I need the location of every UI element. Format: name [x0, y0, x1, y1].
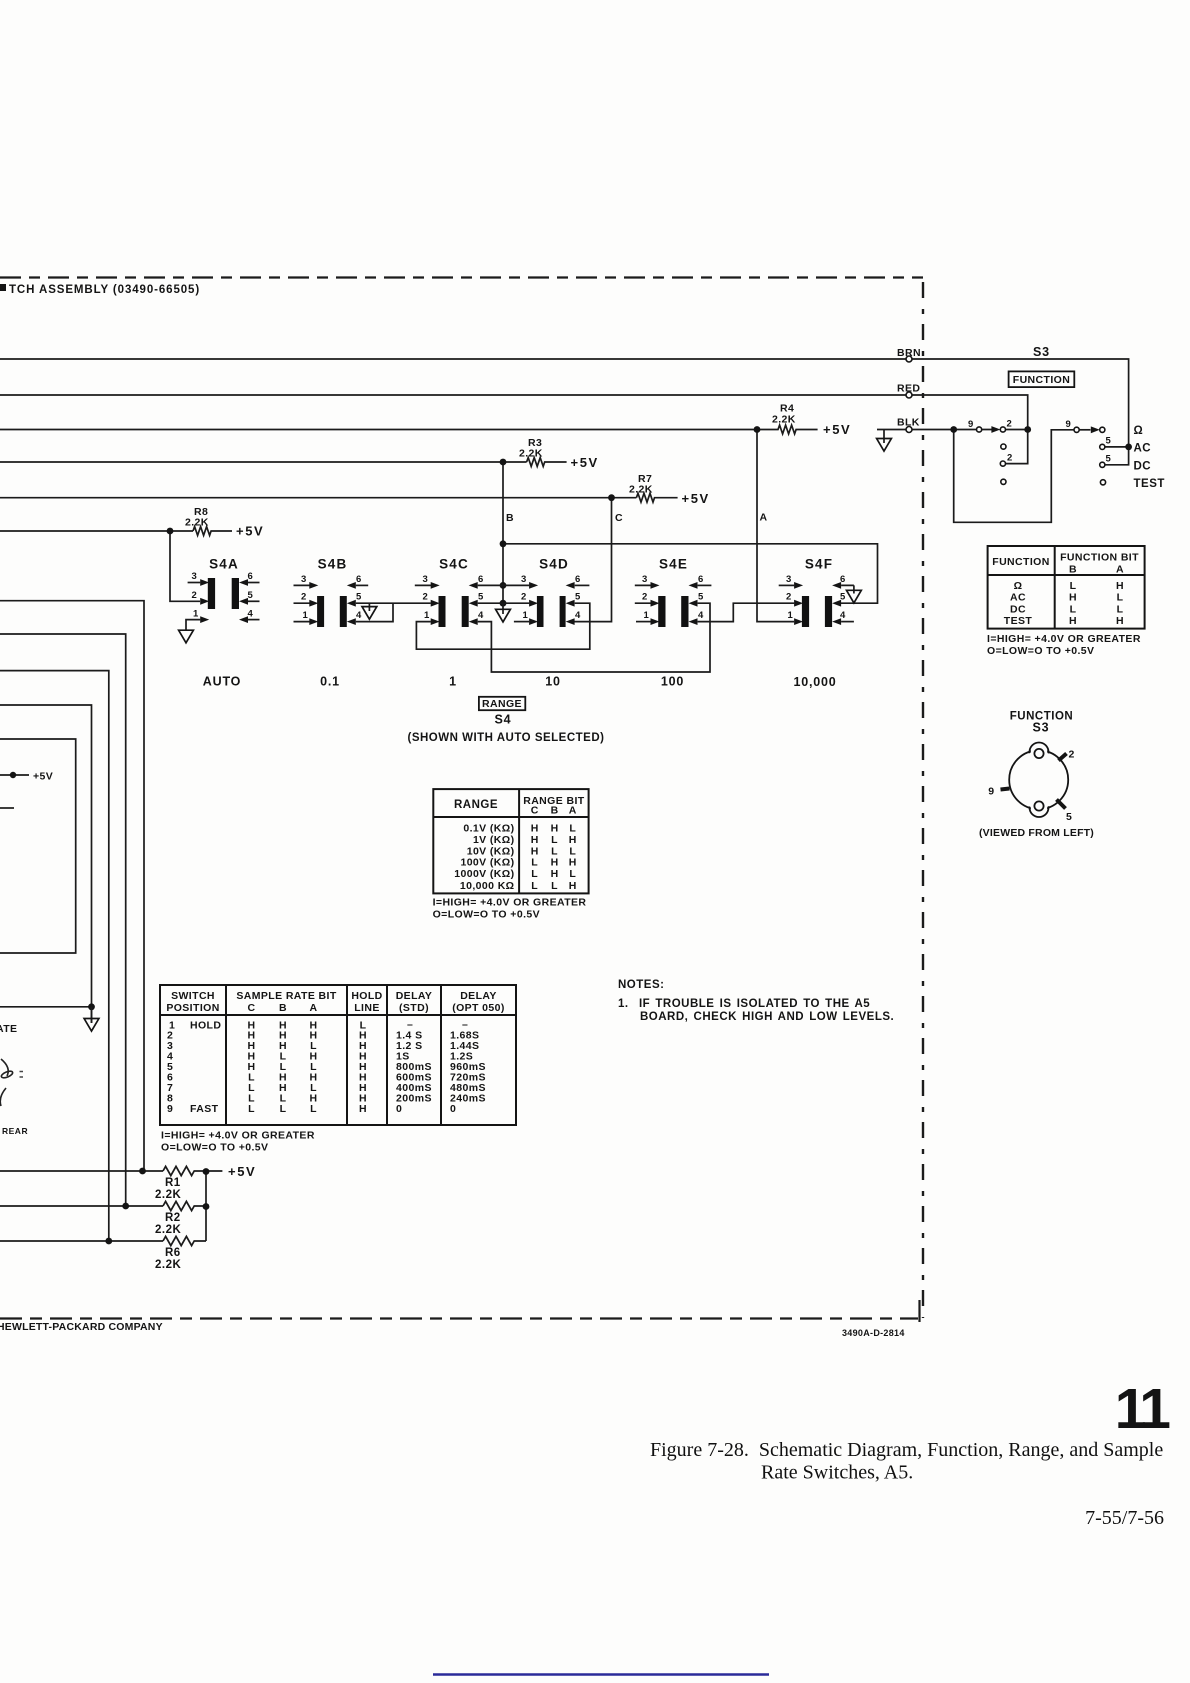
svg-text:H: H: [569, 834, 577, 846]
S4C pin 6 wire to net B: [478, 584, 503, 586]
svg-text:S4B: S4B: [318, 557, 348, 572]
RANGE table rows: [454, 823, 514, 893]
svg-text:RANGE: RANGE: [454, 799, 498, 811]
wire row R8: [0, 530, 193, 532]
assembly border corner stub bottom right: [918, 1300, 920, 1322]
S4D pin 6: [575, 584, 590, 586]
S4C pin 1 wire to S4D pin 5: [416, 603, 589, 649]
svg-text:1: 1: [303, 610, 309, 621]
S4F pin 3: [779, 584, 795, 586]
switch S4D right bar: [560, 596, 566, 627]
svg-text:2.2K: 2.2K: [519, 448, 543, 460]
connector box fragment left: [0, 739, 76, 953]
svg-text:A: A: [760, 512, 768, 524]
svg-text:3: 3: [786, 574, 792, 585]
svg-text:A: A: [310, 1002, 318, 1014]
svg-text:11: 11: [1115, 1377, 1171, 1441]
resistor R6: [163, 1236, 206, 1245]
wire R8 junction down to S4A pin 2: [170, 531, 200, 601]
svg-text:L: L: [551, 880, 558, 892]
wire row B (R3): [0, 461, 527, 463]
resistor R7: [636, 493, 677, 502]
wire BLK segment to connector: [877, 429, 906, 431]
wire R1-R2-R6 right bus: [205, 1171, 207, 1241]
S4D pin 2 wire from net B: [503, 602, 529, 604]
S4A pin 1 wire to ground: [186, 620, 200, 631]
svg-text:S4C: S4C: [439, 557, 469, 572]
svg-text:L: L: [310, 1103, 317, 1115]
S3 deck2 wiper arrow: [1091, 426, 1100, 433]
junction node B top: [500, 459, 507, 466]
svg-text:LINE: LINE: [354, 1002, 380, 1014]
svg-text:TEST: TEST: [1004, 615, 1033, 627]
junction node R2 right: [203, 1203, 210, 1210]
svg-text:I=HIGH= +4.0V OR GREATER: I=HIGH= +4.0V OR GREATER: [433, 897, 587, 909]
svg-text:1: 1: [523, 610, 529, 621]
S3 deck2 contact AC: [1100, 444, 1105, 449]
svg-text:L: L: [569, 868, 576, 880]
svg-text:+5V: +5V: [823, 422, 851, 437]
svg-text:BOARD, CHECK HIGH AND LOW LEVE: BOARD, CHECK HIGH AND LOW LEVELS.: [640, 1011, 894, 1023]
svg-text:Rate Switches, A5.: Rate Switches, A5.: [761, 1462, 913, 1484]
svg-text:B: B: [551, 805, 559, 817]
svg-text:Ω: Ω: [1014, 580, 1023, 592]
svg-text:1. IF TROUBLE IS ISOLATED TO: 1. IF TROUBLE IS ISOLATED TO THE A5: [618, 998, 870, 1010]
sample rate table delay columns: [396, 1018, 486, 1115]
S4B pin 2: [294, 602, 310, 604]
svg-text:I=HIGH= +4.0V OR GREATER: I=HIGH= +4.0V OR GREATER: [161, 1130, 315, 1142]
switch S4B right bar: [340, 596, 347, 627]
S4E pin arrows: [651, 582, 660, 589]
S4D pin arrows: [529, 582, 538, 589]
svg-text:H: H: [551, 857, 559, 869]
svg-text:HOLD: HOLD: [351, 990, 382, 1002]
svg-text:O=LOW=O TO +0.5V: O=LOW=O TO +0.5V: [161, 1142, 268, 1154]
svg-text:S4E: S4E: [659, 557, 688, 572]
svg-text:L: L: [569, 845, 576, 857]
svg-text:TCH ASSEMBLY (03490-66505): TCH ASSEMBLY (03490-66505): [9, 284, 200, 296]
svg-text:4: 4: [478, 610, 484, 621]
svg-text:H: H: [1116, 580, 1124, 592]
S4B ground: [362, 607, 377, 620]
svg-text:100V (KΩ): 100V (KΩ): [460, 857, 514, 869]
svg-text:3: 3: [521, 574, 527, 585]
wire left row2 down to R2: [0, 634, 126, 1206]
S3 deck1 wiper arrow: [991, 426, 1000, 433]
net B to S4F pin 5: [503, 544, 878, 603]
S4B pin 1: [294, 621, 310, 623]
S4F pin arrows: [794, 582, 803, 589]
connector circle BLK: [906, 427, 912, 433]
svg-text:L: L: [1070, 580, 1077, 592]
wire +5V stub in box: [0, 774, 29, 776]
switch S4C right bar: [462, 596, 469, 627]
svg-text:2.2K: 2.2K: [772, 414, 796, 426]
svg-text:B: B: [506, 512, 514, 524]
svg-text:O=LOW=O TO +0.5V: O=LOW=O TO +0.5V: [433, 909, 540, 921]
svg-text:–: –: [462, 1018, 468, 1030]
svg-text:H: H: [359, 1103, 367, 1115]
svg-text:H: H: [569, 880, 577, 892]
svg-text:1V (KΩ): 1V (KΩ): [473, 834, 515, 846]
wire left row1 down to R1: [0, 601, 144, 1171]
S4B pin 6: [356, 584, 368, 586]
junction node R1 left: [139, 1168, 146, 1175]
svg-text:5: 5: [478, 592, 484, 603]
svg-text:B: B: [1069, 564, 1077, 576]
wire RED to S3 contact 2: [912, 395, 1028, 464]
assembly dashed border right: [922, 282, 924, 1318]
S4B pin 5 wire to S4C pin 2: [356, 602, 431, 604]
svg-text:7-55/7-56: 7-55/7-56: [1085, 1507, 1164, 1529]
svg-text:H: H: [551, 868, 559, 880]
svg-text:3490A-D-2814: 3490A-D-2814: [842, 1328, 905, 1338]
wire BLK row: [0, 429, 757, 431]
S4B ground stub: [368, 603, 370, 611]
net A vertical to S4F pin 1: [757, 430, 794, 622]
svg-text:+5V: +5V: [682, 491, 710, 506]
svg-text:S4F: S4F: [805, 557, 833, 572]
S4A ground: [179, 630, 194, 643]
ground at net B below S4C/S4D: [502, 603, 504, 614]
svg-text:0: 0: [450, 1103, 456, 1115]
svg-text:L: L: [551, 834, 558, 846]
svg-text:(VIEWED FROM LEFT): (VIEWED FROM LEFT): [979, 827, 1094, 839]
svg-text:S4D: S4D: [539, 557, 569, 572]
svg-text:2.2K: 2.2K: [155, 1224, 181, 1236]
resistor R4: [757, 425, 818, 434]
switch S4E left bar: [658, 596, 665, 627]
svg-text:L: L: [1117, 603, 1124, 615]
S4D pin 3 wire from net B: [503, 584, 529, 586]
S3 connector tab 9: [1001, 789, 1010, 790]
svg-text:6: 6: [248, 571, 254, 582]
svg-text:SWITCH: SWITCH: [171, 990, 215, 1002]
left fragment marks: [20, 1072, 24, 1078]
junction node R1 right: [203, 1168, 210, 1175]
svg-text:S4: S4: [495, 713, 512, 727]
svg-text:5: 5: [248, 590, 254, 601]
S3 connector tab 2: [1059, 754, 1067, 761]
S4F pin 6 ground: [847, 590, 862, 603]
junction node B mid: [500, 540, 507, 547]
svg-text:H: H: [1069, 592, 1077, 604]
S4B pin arrows: [309, 582, 318, 589]
svg-text:I=HIGH= +4.0V OR GREATER: I=HIGH= +4.0V OR GREATER: [987, 633, 1141, 645]
svg-text:1: 1: [193, 608, 199, 619]
svg-text:1: 1: [449, 675, 457, 689]
svg-text:S4A: S4A: [209, 557, 239, 572]
svg-text:10,000 KΩ: 10,000 KΩ: [460, 880, 515, 892]
ground at BLK: [883, 430, 885, 444]
wire S3 deck1 to deck2 feed: [954, 430, 1074, 523]
svg-text:L: L: [280, 1103, 287, 1115]
svg-text:S3: S3: [1033, 721, 1050, 735]
net B vertical: [502, 462, 504, 603]
net C vertical to S4D pin 4: [572, 498, 612, 622]
svg-text:DC: DC: [1134, 461, 1152, 473]
svg-text:+5V: +5V: [571, 455, 599, 470]
svg-text:2.2K: 2.2K: [185, 517, 209, 529]
sample rate table bit columns: [248, 1019, 367, 1115]
wire left row4 down to ground: [0, 705, 92, 1007]
svg-text:L: L: [1117, 592, 1124, 604]
svg-text:POSITION: POSITION: [166, 1002, 219, 1014]
S4F pin 6 wire: [841, 585, 854, 593]
svg-text:2.2K: 2.2K: [629, 484, 653, 496]
svg-text:H: H: [531, 823, 539, 835]
svg-text:H: H: [531, 834, 539, 846]
svg-text:6: 6: [698, 574, 704, 585]
svg-text:R6: R6: [165, 1247, 181, 1259]
svg-text:0.1V (KΩ): 0.1V (KΩ): [463, 823, 514, 835]
S3 deck2 contact DC: [1100, 462, 1105, 467]
svg-text:4: 4: [698, 610, 704, 621]
svg-text:5: 5: [1106, 436, 1112, 447]
wire BRN row: [0, 358, 906, 360]
svg-text:5: 5: [840, 592, 846, 603]
switch S4F left bar: [802, 596, 809, 627]
svg-text:4: 4: [356, 610, 362, 621]
S4B pin 3: [294, 584, 310, 586]
left fragment wiper arc: [1, 1059, 8, 1076]
svg-text:–: –: [407, 1018, 413, 1030]
junction node R2 left: [122, 1203, 129, 1210]
S4E pin 4 wire to S4F pin 2: [698, 603, 795, 621]
svg-text:3: 3: [423, 574, 429, 585]
switch S4E right bar: [681, 596, 688, 627]
wire BRN to S3: [912, 359, 1129, 444]
svg-text:H: H: [1069, 615, 1077, 627]
svg-text:(SHOWN WITH AUTO SELECTED): (SHOWN WITH AUTO SELECTED): [408, 732, 605, 744]
svg-text:TEST: TEST: [1134, 478, 1165, 490]
svg-text:4: 4: [575, 610, 581, 621]
svg-text:L: L: [248, 1103, 255, 1115]
svg-text:(OPT 050): (OPT 050): [452, 1002, 505, 1014]
svg-text:5: 5: [575, 592, 581, 603]
svg-text:10,000: 10,000: [793, 675, 836, 689]
svg-text:RED: RED: [897, 383, 920, 395]
svg-text:10: 10: [545, 675, 561, 689]
svg-text:FUNCTION BIT: FUNCTION BIT: [1060, 552, 1139, 564]
svg-text:100: 100: [661, 675, 684, 689]
connector circle BRN: [906, 356, 912, 362]
S4A pin 5: [248, 600, 260, 602]
svg-text:(STD): (STD): [399, 1002, 429, 1014]
wire S3 deck2 wiper gap: [1079, 429, 1090, 431]
svg-text:L: L: [531, 857, 538, 869]
svg-text:6: 6: [356, 574, 362, 585]
switch S4A right bar: [232, 578, 239, 609]
svg-text:5: 5: [1066, 811, 1072, 823]
svg-text:ATE: ATE: [0, 1023, 17, 1035]
S4E pin 3: [635, 584, 651, 586]
svg-text:2: 2: [1007, 419, 1013, 430]
S4A pin 6: [248, 582, 260, 584]
svg-text:+5V: +5V: [228, 1164, 256, 1179]
svg-text:3: 3: [642, 574, 648, 585]
switch S4B left bar: [317, 596, 324, 627]
wire S3 AC contact to node: [1105, 446, 1129, 448]
svg-text:HEWLETT-PACKARD COMPANY: HEWLETT-PACKARD COMPANY: [0, 1321, 163, 1333]
connector circle RED: [906, 392, 912, 398]
svg-text:+5V: +5V: [236, 524, 264, 539]
wire row R1: [0, 1170, 163, 1172]
S3 connector tab 5: [1057, 800, 1066, 809]
junction node BLK deck feed: [950, 426, 957, 433]
S3 deck2 contact 9: [1074, 427, 1079, 432]
svg-text:AC: AC: [1010, 592, 1026, 604]
S3 deck1 contact bottom: [1001, 479, 1006, 484]
junction node C: [608, 494, 615, 501]
svg-text:2: 2: [642, 592, 648, 603]
svg-text:R2: R2: [165, 1212, 181, 1224]
svg-text:AC: AC: [1134, 443, 1152, 455]
svg-text:L: L: [569, 823, 576, 835]
svg-text:BLK: BLK: [897, 417, 920, 429]
junction node R4/A: [754, 426, 761, 433]
svg-text:C: C: [531, 805, 539, 817]
S4A pin 3: [188, 582, 201, 584]
svg-text:AUTO: AUTO: [203, 675, 241, 689]
svg-text:BRN: BRN: [897, 347, 921, 359]
assembly dashed border bottom: [0, 1317, 918, 1319]
wire row C (R7): [0, 497, 636, 499]
S4C pin 5 wire to net B: [478, 602, 503, 604]
junction node B at S4C pin6 row: [500, 582, 507, 589]
resistor R2: [163, 1201, 206, 1210]
junction node R6 left: [105, 1238, 112, 1245]
S3 deck2 contact TEST: [1100, 480, 1105, 485]
junction node left ground: [88, 1003, 95, 1010]
svg-text:6: 6: [840, 574, 846, 585]
FUNCTION table rows: [1004, 580, 1124, 627]
svg-text:2: 2: [521, 592, 527, 603]
sample rate table frame: [160, 985, 516, 1125]
svg-text:C: C: [248, 1002, 256, 1014]
svg-text:1: 1: [424, 610, 430, 621]
svg-text:2.2K: 2.2K: [155, 1189, 181, 1201]
svg-text:FUNCTION: FUNCTION: [992, 556, 1049, 568]
svg-text:1: 1: [644, 610, 650, 621]
svg-text:5: 5: [356, 592, 362, 603]
assembly title blob: [0, 284, 6, 291]
wire RED row: [0, 394, 906, 396]
S4E pin 1: [636, 621, 651, 623]
svg-text:4: 4: [248, 608, 254, 619]
wire left ground row: [0, 1007, 92, 1023]
switch S4F right bar: [825, 596, 832, 627]
svg-text:FAST: FAST: [190, 1103, 219, 1115]
svg-text:A: A: [1116, 564, 1124, 576]
wire row R6: [0, 1240, 163, 1242]
S3 connector mounting holes: [1034, 749, 1043, 758]
svg-text:NOTES:: NOTES:: [618, 979, 664, 991]
sample rate table position column: [167, 1019, 221, 1115]
RANGE boxed label: [479, 697, 525, 710]
svg-text:L: L: [531, 868, 538, 880]
junction node R8: [167, 528, 174, 535]
svg-text:0.1: 0.1: [320, 675, 340, 689]
svg-text:H: H: [551, 823, 559, 835]
svg-text:B: B: [279, 1002, 287, 1014]
partial mark in box: [0, 807, 14, 809]
svg-text:4: 4: [840, 610, 846, 621]
S4C pin 3: [415, 584, 431, 586]
svg-text:2: 2: [423, 592, 429, 603]
S4C pin 4 wire to S4E pin 5: [478, 603, 710, 672]
wire S3 DC contact up to AC node: [1105, 447, 1129, 465]
FUNCTION boxed label: [1009, 371, 1075, 387]
switch S4D left bar: [537, 596, 544, 627]
svg-text:3: 3: [301, 574, 307, 585]
svg-text:O=LOW=O TO +0.5V: O=LOW=O TO +0.5V: [987, 645, 1094, 657]
svg-text:C: C: [615, 512, 623, 524]
resistor R8: [193, 527, 232, 536]
wire BLK into S3: [912, 429, 1028, 431]
wire row R2: [0, 1205, 163, 1207]
svg-text:9: 9: [988, 786, 994, 798]
svg-text:Ω: Ω: [1134, 425, 1144, 437]
RANGE BIT table frame: [433, 789, 588, 893]
left fragment lower arc: [0, 1088, 6, 1106]
S4D pin 1: [514, 621, 529, 623]
svg-text:6: 6: [575, 574, 581, 585]
junction node B at S4C pin5 row: [500, 600, 507, 607]
svg-text:9: 9: [167, 1103, 173, 1115]
S4E pin 6: [698, 584, 712, 586]
S3 deck2 contact omega: [1100, 427, 1105, 432]
assembly dashed border top: [0, 276, 923, 278]
junction node S3 AC: [1125, 444, 1132, 451]
svg-text:2.2K: 2.2K: [155, 1259, 181, 1271]
S4C pin arrows: [431, 582, 440, 589]
svg-text:2: 2: [1007, 453, 1013, 464]
S4F pin 4 stub: [841, 621, 854, 623]
svg-text:1000V (KΩ): 1000V (KΩ): [454, 868, 514, 880]
svg-text:REAR: REAR: [2, 1126, 28, 1136]
S4A pin arrows: [200, 579, 209, 586]
ground left column: [91, 1007, 93, 1023]
svg-text:L: L: [1070, 603, 1077, 615]
svg-text:2: 2: [1069, 749, 1075, 761]
svg-text:A: A: [569, 805, 577, 817]
svg-text:9: 9: [968, 419, 974, 430]
svg-text:+5V: +5V: [33, 771, 53, 783]
svg-text:6: 6: [478, 574, 484, 585]
svg-text:0: 0: [396, 1103, 402, 1115]
svg-text:1: 1: [788, 610, 794, 621]
svg-text:H: H: [1116, 615, 1124, 627]
S3 deck1 contact 2 lower: [1000, 461, 1005, 466]
svg-text:9: 9: [1066, 419, 1072, 430]
svg-text:FUNCTION: FUNCTION: [1013, 374, 1070, 386]
junction node +5V stub: [10, 772, 16, 778]
svg-text:2: 2: [786, 592, 792, 603]
S3 connector body: [1009, 743, 1068, 818]
svg-text:10V (KΩ): 10V (KΩ): [467, 845, 515, 857]
svg-text:L: L: [531, 880, 538, 892]
svg-text:DELAY: DELAY: [460, 990, 497, 1002]
svg-text:5: 5: [1106, 454, 1112, 465]
resistor R1: [163, 1166, 222, 1175]
svg-text:2: 2: [192, 590, 198, 601]
svg-text:SAMPLE RATE BIT: SAMPLE RATE BIT: [236, 990, 336, 1002]
svg-text:S3: S3: [1033, 345, 1050, 359]
svg-text:5: 5: [698, 592, 704, 603]
svg-text:DELAY: DELAY: [396, 990, 433, 1002]
svg-text:RANGE: RANGE: [482, 698, 522, 710]
